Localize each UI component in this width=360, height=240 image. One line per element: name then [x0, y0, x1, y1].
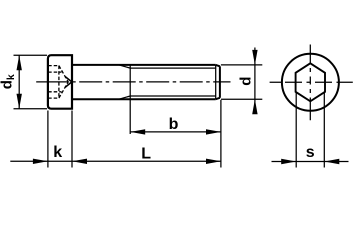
- dimension d extension line (bottom): [221, 98, 262, 100]
- dimension s extension line (right): [323, 93, 325, 168]
- socket cone hidden line (lower): [59, 82, 68, 98]
- thread runout diagonal (upper): [119, 65, 130, 68]
- dimension dk arrow (up): [17, 55, 22, 70]
- svg-text:L: L: [141, 146, 151, 163]
- dimension d line: [254, 48, 256, 114]
- thread root line (upper): [130, 67, 216, 69]
- end view circle (head outline): [282, 54, 339, 111]
- hex socket hidden line (lower outer wall): [48, 97, 59, 99]
- screw head (side view): [48, 55, 72, 108]
- dimension s arrow (outside left): [281, 159, 296, 164]
- dimension d extension line (top): [221, 64, 262, 66]
- end view hex socket: [296, 63, 325, 101]
- tip chamfer diagonal (upper): [216, 65, 220, 66]
- hex socket bottom hidden line: [58, 66, 60, 99]
- dimension b line: [130, 131, 221, 133]
- svg-text:d: d: [237, 77, 254, 86]
- hex socket hidden line (upper inner edge): [48, 71, 61, 73]
- dimension b arrow (right): [206, 129, 221, 134]
- shank lower outline: [72, 98, 216, 100]
- svg-text:k: k: [53, 144, 62, 161]
- thread runout diagonal (lower): [119, 96, 130, 99]
- dimension dk extension line (top): [14, 54, 48, 56]
- svg-text:s: s: [306, 144, 315, 161]
- hex socket hidden line (upper outer wall): [48, 65, 59, 67]
- dimension s arrow (outside right): [324, 159, 339, 164]
- thread runout boundary: [129, 65, 131, 99]
- hex socket hidden line (lower inner edge): [48, 91, 61, 93]
- screw end face: [219, 66, 221, 98]
- dimension k extension line (left): [47, 111, 49, 168]
- svg-text:b: b: [169, 116, 179, 133]
- socket cone hidden line (upper): [59, 66, 68, 82]
- end view vertical centerline: [309, 45, 311, 121]
- dimension s extension line (left): [295, 93, 297, 168]
- dimension d arrow (outside bottom): [252, 99, 257, 114]
- dimension L arrow (left): [72, 159, 87, 164]
- dimension b arrow (left): [130, 129, 145, 134]
- dimension k/L line: [10, 160, 221, 162]
- end view horizontal centerline: [270, 81, 353, 83]
- dimension L arrow (right): [206, 159, 221, 164]
- socket cone tip chevron: [65, 77, 72, 88]
- dimension d arrow (outside top): [252, 50, 257, 65]
- dimension b / L extension line (right, screw tip): [220, 100, 222, 168]
- dimension dk line: [18, 55, 20, 108]
- centerline (screw axis, side view): [36, 81, 230, 83]
- dimension dk extension line (bottom): [14, 108, 48, 110]
- thread root line (lower): [130, 95, 216, 97]
- dimension dk arrow (down): [17, 94, 22, 109]
- shank upper outline: [72, 64, 216, 66]
- dimension s line: [272, 161, 349, 163]
- tip chamfer line: [215, 65, 217, 99]
- dimension b extension line (left, thread start): [129, 99, 131, 134]
- dimension k arrow (outside left): [33, 159, 48, 164]
- tip chamfer diagonal (lower): [216, 98, 220, 99]
- dimension k extension line (right): [71, 111, 73, 168]
